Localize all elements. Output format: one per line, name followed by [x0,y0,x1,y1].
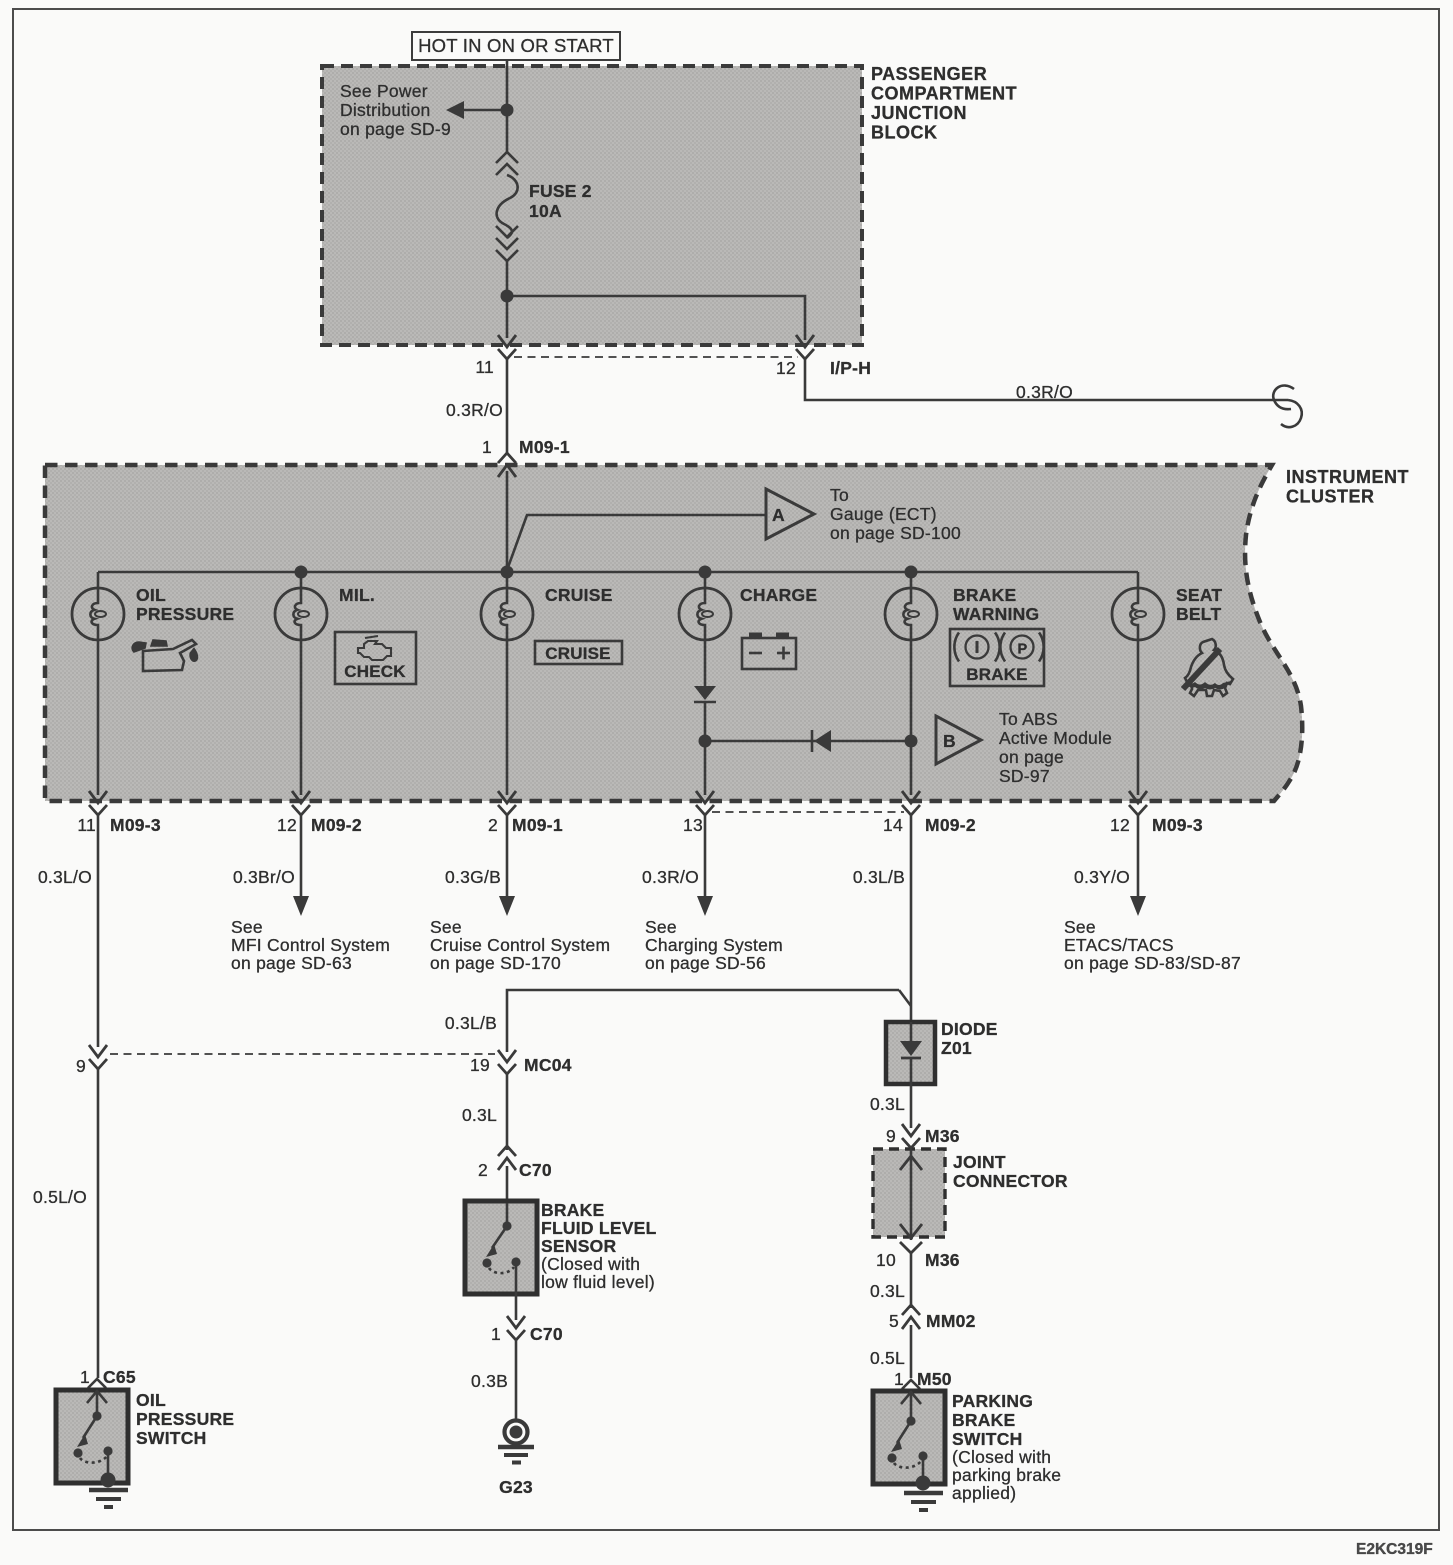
wire: pin 12 down and right with 0.3R/O [805,359,1288,400]
svg-text:(Closed with: (Closed with [952,1447,1051,1467]
wire 0.3Br/O with see-arrow (MFI) [233,813,309,916]
svg-text:See: See [1064,917,1096,937]
wire 0.3L diode to M36 [910,1084,913,1128]
wire: M09-1 pin 1 into cluster down to bus [506,471,509,572]
svg-text:C70: C70 [530,1324,563,1344]
svg-text:11: 11 [475,357,494,377]
label INSTRUMENT CLUSTER [1286,467,1409,507]
svg-text:Charging System: Charging System [645,935,783,955]
svg-text:applied): applied) [952,1483,1016,1503]
lamp SEAT BELT [1112,572,1222,795]
wire 0.3G/B with see-arrow (Cruise) [445,813,515,916]
ground below parking brake switch [904,1493,943,1510]
label BRAKE FLUID LEVEL SENSOR [541,1200,657,1292]
wire into brake fluid sensor [506,1166,509,1222]
instrument cluster box (wavy right edge) [45,465,1302,801]
wire: bus line in cluster [98,571,1138,574]
wire: fuse to junction [506,259,509,338]
CRUISE indicator box [535,641,622,664]
wire: pin 11 down to M09-1 [506,359,509,455]
svg-text:0.3G/B: 0.3G/B [445,867,501,887]
svg-text:0.3L/B: 0.3L/B [445,1013,497,1033]
connector pin 12 M09-3 (seat belt) [1110,791,1203,835]
svg-text:2: 2 [478,1160,488,1180]
svg-text:0.3L: 0.3L [870,1094,905,1114]
label FUSE 2 10A [529,181,592,221]
triangle A [766,489,814,539]
wire charge branch to pin 13 [704,741,707,795]
svg-text:SEAT: SEAT [1176,585,1222,605]
svg-text:MIL.: MIL. [339,585,375,605]
label See Charging System on page SD-56 [645,917,783,973]
svg-text:SWITCH: SWITCH [952,1429,1023,1449]
dashed connector tie line pins 11-12 [514,356,798,358]
node dot brake-warning branch [905,735,918,748]
svg-text:9: 9 [886,1126,896,1146]
wire 0.3B to ground [515,1340,518,1419]
label DIODE Z01 [941,1019,998,1058]
label pin 12 / I/P-H [776,358,871,378]
svg-text:G23: G23 [499,1477,533,1497]
svg-text:Cruise Control System: Cruise Control System [430,935,610,955]
svg-text:13: 13 [683,815,703,835]
svg-text:1: 1 [894,1369,904,1389]
wire 0.5L/O oil branch to C65 [97,1067,100,1378]
svg-text:M36: M36 [925,1126,960,1146]
svg-text:E2KC319F: E2KC319F [1356,1541,1433,1558]
svg-text:0.3R/O: 0.3R/O [1016,382,1073,402]
label PASSENGER COMPARTMENT JUNCTION BLOCK [871,64,1017,143]
svg-text:FLUID LEVEL: FLUID LEVEL [541,1218,657,1238]
wire 0.3L/O oil pressure branch [97,813,100,1047]
connector 19 MC04 [470,1050,572,1075]
passenger compartment junction block box [322,66,862,345]
svg-text:C70: C70 [519,1160,552,1180]
svg-text:PARKING: PARKING [952,1391,1033,1411]
svg-text:See: See [231,917,263,937]
wire 0.5L MM02 to M50 [910,1325,913,1378]
node dot charge-branch [699,735,712,748]
wire: HOT box to fuse [506,60,509,152]
connector 10 M36 [876,1242,960,1270]
svg-text:on page SD-170: on page SD-170 [430,953,561,973]
wire 0.3L to C70 [506,1072,509,1150]
BRAKE indicator box with (I)(P) [950,629,1044,686]
svg-text:PRESSURE: PRESSURE [136,1409,234,1429]
wire: diagonal + horizontal to triangle A [507,515,766,570]
svg-text:0.5L: 0.5L [870,1348,905,1368]
svg-text:See: See [430,917,462,937]
svg-text:11: 11 [77,815,96,835]
connector pin 14 M09-2 [883,791,976,835]
wire: junction to pin 12 [507,296,805,340]
connector 1 C65 [80,1367,136,1388]
svg-text:To: To [830,485,849,505]
svg-text:on page SD-56: on page SD-56 [645,953,766,973]
svg-text:FUSE 2: FUSE 2 [529,181,592,201]
svg-text:1: 1 [491,1324,501,1344]
svg-text:BRAKE: BRAKE [966,665,1027,684]
svg-text:0.5L/O: 0.5L/O [33,1187,87,1207]
lamp CRUISE [481,572,613,795]
diode below CHARGE lamp [694,686,716,741]
svg-text:M09-1: M09-1 [512,815,563,835]
svg-text:14: 14 [883,815,903,835]
svg-text:CRUISE: CRUISE [545,644,610,663]
svg-text:19: 19 [470,1055,490,1075]
svg-text:Distribution: Distribution [340,100,431,120]
label OIL PRESSURE SWITCH [136,1390,234,1448]
icon seat belt [1183,639,1233,696]
node dots on bus [295,566,308,579]
HOT IN ON OR START box [412,32,620,60]
svg-text:Active Module: Active Module [999,728,1112,748]
svg-text:MC04: MC04 [524,1055,572,1075]
svg-text:SWITCH: SWITCH [136,1428,207,1448]
svg-text:To ABS: To ABS [999,709,1058,729]
label JOINT CONNECTOR [953,1152,1068,1191]
svg-text:B: B [943,731,956,751]
svg-text:See: See [645,917,677,937]
label PARKING BRAKE SWITCH [952,1391,1061,1503]
svg-text:WARNING: WARNING [953,604,1039,624]
connector 5 MM02 [889,1305,976,1331]
svg-text:BRAKE: BRAKE [952,1410,1015,1430]
svg-text:0.3L: 0.3L [462,1105,497,1125]
wire out of sensor [515,1294,518,1320]
svg-text:M09-3: M09-3 [110,815,161,835]
lamp BRAKE WARNING [885,572,1039,795]
svg-text:ETACS/TACS: ETACS/TACS [1064,935,1174,955]
svg-text:parking brake: parking brake [952,1465,1061,1485]
svg-text:on page SD-83/SD-87: on page SD-83/SD-87 [1064,953,1241,973]
svg-text:on page SD-100: on page SD-100 [830,523,961,543]
connector 1 C70 [491,1316,563,1344]
parking brake switch box [873,1391,945,1491]
svg-text:0.3L/O: 0.3L/O [38,867,92,887]
brake fluid level sensor box [465,1201,537,1294]
svg-text:M09-1: M09-1 [519,437,570,457]
svg-text:I/P-H: I/P-H [830,358,871,378]
connector pin 11 M09-3 [77,791,161,835]
svg-text:PASSENGER: PASSENGER [871,64,987,84]
triangle B [936,716,981,764]
svg-text:on page SD-9: on page SD-9 [340,119,451,139]
label See ETACS/TACS on page SD-83/SD-87 [1064,917,1241,973]
svg-text:BELT: BELT [1176,604,1221,624]
connector pin 12 I/P-H [796,335,814,359]
svg-text:CHARGE: CHARGE [740,585,817,605]
dashed tie line connector MC04 [110,1053,495,1055]
wire 0.3L M36 to MM02 [910,1253,913,1308]
svg-text:0.3Br/O: 0.3Br/O [233,867,295,887]
svg-text:CHECK: CHECK [344,662,406,681]
svg-text:12: 12 [1110,815,1130,835]
svg-text:2: 2 [488,815,498,835]
svg-text:0.3L: 0.3L [870,1281,905,1301]
svg-text:OIL: OIL [136,1390,166,1410]
svg-text:See Power: See Power [340,81,428,101]
diode on lower link (pointing left) [812,730,831,752]
label To Gauge (ECT) on page SD-100 [830,485,961,543]
svg-text:COMPARTMENT: COMPARTMENT [871,84,1017,104]
svg-text:BRAKE: BRAKE [541,1200,604,1220]
svg-text:M50: M50 [917,1369,952,1389]
svg-text:SD-97: SD-97 [999,766,1050,786]
svg-text:OIL: OIL [136,585,166,605]
joint connector box [873,1146,945,1240]
svg-text:CONNECTOR: CONNECTOR [953,1171,1068,1191]
node: junction dot above pin 11 [501,290,514,303]
svg-text:0.3B: 0.3B [471,1371,508,1391]
svg-text:Gauge (ECT): Gauge (ECT) [830,504,937,524]
connector pin 11 of junction block [498,335,516,359]
connector 9 on oil branch [76,1045,107,1076]
svg-text:CRUISE: CRUISE [545,585,613,605]
diode Z01 box [886,1022,935,1084]
svg-text:HOT IN ON OR START: HOT IN ON OR START [418,35,614,56]
icon battery [742,633,796,670]
ground below oil pressure switch [89,1490,128,1507]
svg-text:JOINT: JOINT [953,1152,1006,1172]
svg-text:Z01: Z01 [941,1038,972,1058]
svg-text:MFI Control System: MFI Control System [231,935,390,955]
lamp OIL PRESSURE [72,572,234,795]
dashed tie line pins 13-14 [712,811,904,813]
svg-text:M36: M36 [925,1250,960,1270]
label See Cruise Control System on page SD-170 [430,917,610,973]
svg-text:DIODE: DIODE [941,1019,998,1039]
svg-text:BRAKE: BRAKE [953,585,1016,605]
label To ABS Active Module on page SD-97 [999,709,1112,786]
svg-text:1: 1 [80,1367,90,1387]
svg-text:CLUSTER: CLUSTER [1286,487,1375,507]
wire bevel joining branch to vertical [899,990,911,1006]
svg-text:low fluid level): low fluid level) [541,1272,655,1292]
continuation squiggle [1273,385,1302,427]
svg-text:M09-2: M09-2 [311,815,362,835]
svg-text:5: 5 [889,1311,899,1331]
svg-text:0.3L/B: 0.3L/B [853,867,905,887]
svg-text:12: 12 [776,358,796,378]
oil pressure switch box [56,1390,128,1488]
fuse F2 symbol [496,152,518,261]
svg-text:A: A [772,505,785,525]
switch inside sensor [506,1203,509,1226]
CHECK engine box [335,632,416,684]
svg-text:INSTRUMENT: INSTRUMENT [1286,467,1409,487]
ground G23 [498,1421,534,1498]
svg-text:10A: 10A [529,201,562,221]
icon oil can [132,640,198,671]
lamp MIL [275,572,375,795]
wire 0.3L/B from pin 14 down to diode Z01 [910,813,913,1022]
svg-text:P: P [1018,642,1028,658]
connector 1 M50 [894,1369,952,1389]
svg-text:12: 12 [277,815,297,835]
svg-text:0.3R/O: 0.3R/O [446,400,503,420]
label See Power Distribution on page SD-9 [340,81,451,139]
connector pin 12 M09-2 [277,791,362,835]
wire: arrow to See Power Distribution [446,101,507,119]
node: junction dot top [501,104,514,117]
lamp CHARGE [679,572,817,686]
wire 0.3Y/O with see-arrow (ETACS) [1074,813,1146,916]
svg-text:0.3Y/O: 0.3Y/O [1074,867,1130,887]
svg-text:JUNCTION: JUNCTION [871,103,967,123]
svg-text:on page: on page [999,747,1064,767]
wire lower link with diode to brake warning branch [705,740,911,743]
svg-text:PRESSURE: PRESSURE [136,604,234,624]
svg-text:M09-3: M09-3 [1152,815,1203,835]
connector 1 M09-1 at cluster entry [482,437,570,477]
svg-text:BLOCK: BLOCK [871,123,938,143]
svg-text:C65: C65 [103,1367,136,1387]
svg-text:M09-2: M09-2 [925,815,976,835]
wire branch to brake fluid sensor [507,990,899,1052]
svg-text:(Closed with: (Closed with [541,1254,640,1274]
wire 0.3R/O with see-arrow (Charging) [642,813,713,916]
connector 2 C70 [478,1146,552,1180]
svg-text:SENSOR: SENSOR [541,1236,617,1256]
connector 9 M36 [886,1124,960,1148]
svg-text:9: 9 [76,1056,86,1076]
svg-text:10: 10 [876,1250,896,1270]
label See MFI Control System on page SD-63 [231,917,390,973]
svg-text:1: 1 [482,437,492,457]
svg-text:MM02: MM02 [926,1311,976,1331]
connector pin 2 M09-1 [488,791,563,835]
connector pin 13 [683,791,714,835]
svg-text:on page SD-63: on page SD-63 [231,953,352,973]
svg-text:0.3R/O: 0.3R/O [642,867,699,887]
